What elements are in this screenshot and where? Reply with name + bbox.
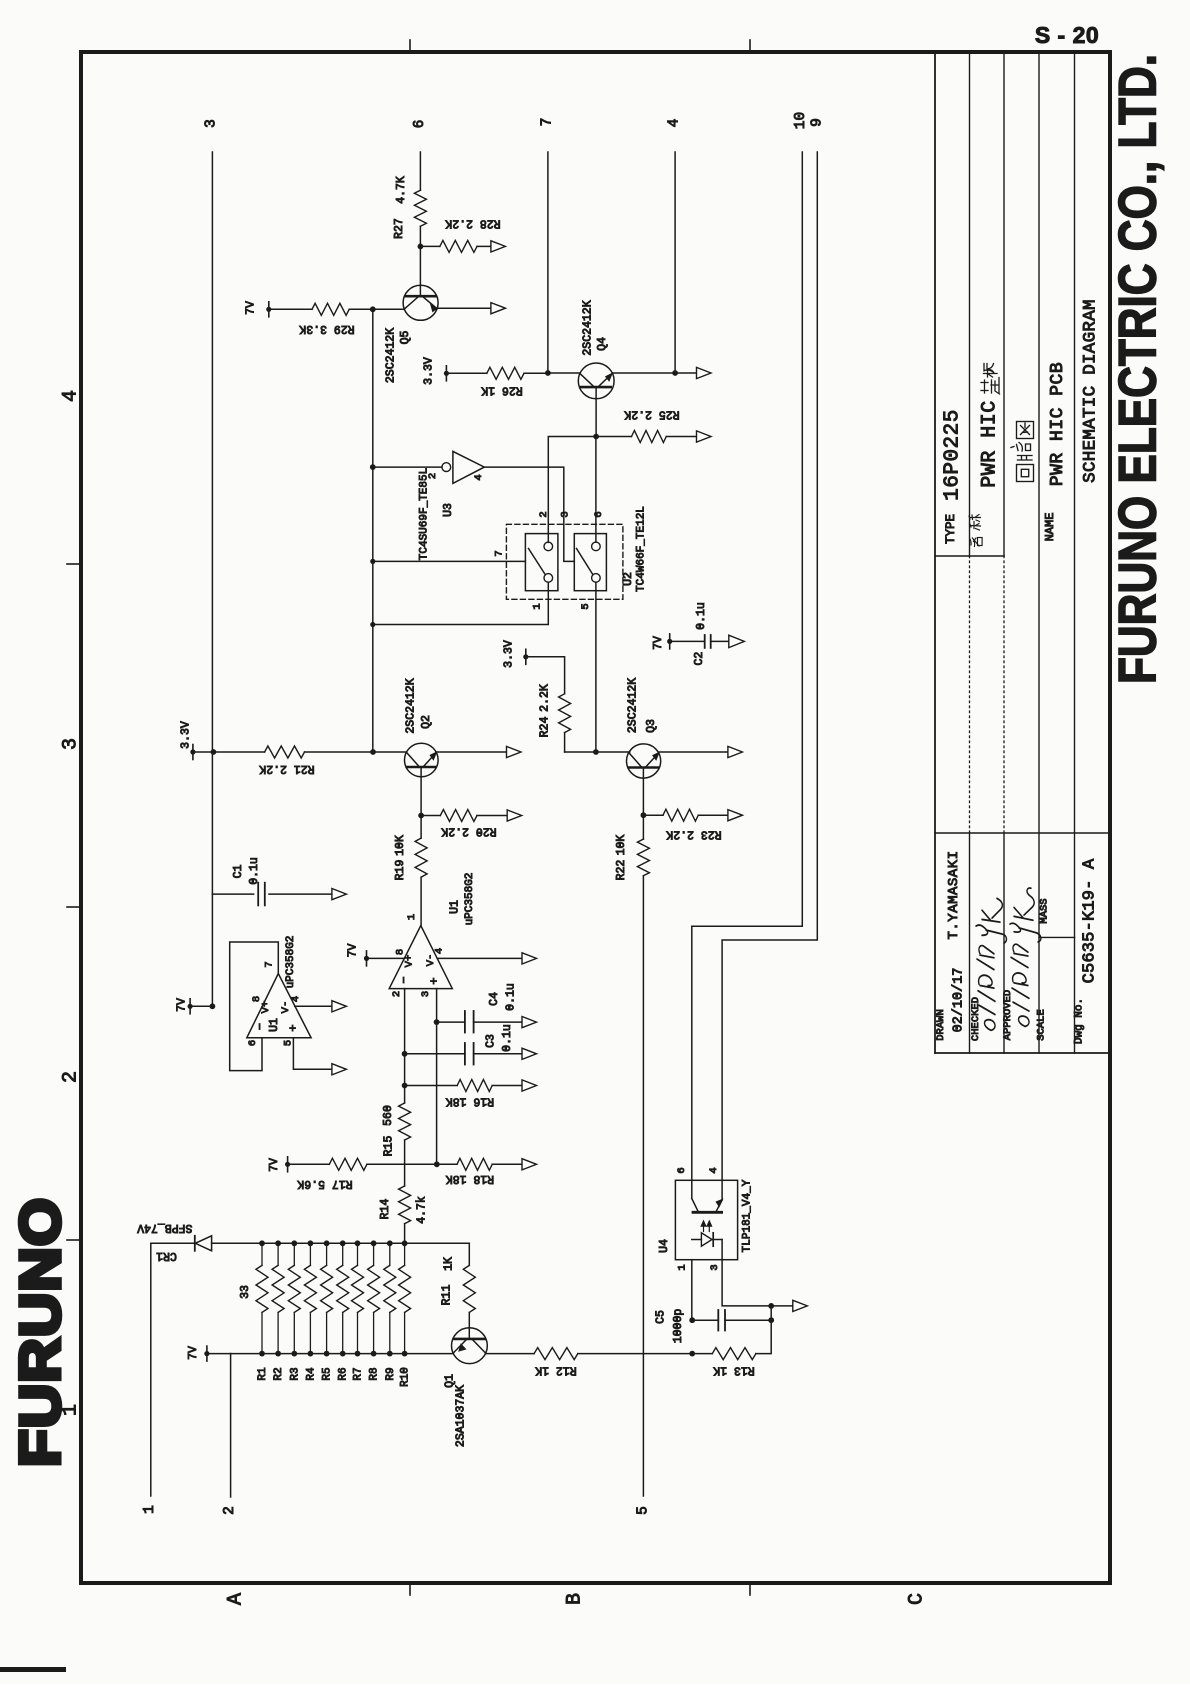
label R14 [379,1196,428,1224]
svg-text:Dwg No.: Dwg No. [1074,998,1086,1044]
svg-text:S - 20: S - 20 [1035,22,1099,48]
svg-text:R13 1K: R13 1K [713,1364,755,1377]
svg-text:4: 4 [60,390,83,402]
svg-text:2SC2412K: 2SC2412K [405,678,418,733]
svg-text:5: 5 [636,1506,652,1515]
svg-text:5: 5 [282,1040,294,1046]
label U1b V+ [404,955,416,968]
svg-text:R11: R11 [441,1285,454,1306]
wire out arrow [771,1305,793,1307]
label U4 pin3 [709,1264,721,1270]
arrow C4 out [522,1017,537,1028]
svg-text:3: 3 [560,511,572,517]
7V tap (U1a V+) [188,999,213,1014]
node bottom bus / T2 [230,1353,232,1355]
title circuit-diagram kanji [1011,422,1034,482]
svg-text:2: 2 [538,511,550,517]
label Q4 [582,300,610,355]
svg-text:4.7K: 4.7K [395,176,408,204]
wire U1b pin2 drop [404,989,406,1103]
svg-text:02/10/17: 02/10/17 [952,968,967,1033]
label U1a plus [286,1024,300,1031]
label CR1 [156,1249,177,1262]
label Q1 [444,1374,468,1447]
label U3 part [418,468,430,560]
title Dwg No. label [1074,998,1086,1044]
transistor Q5 [373,246,491,320]
node pin2/C3 [402,1051,408,1057]
label U1b pin1 [406,914,418,920]
svg-text:1: 1 [406,914,418,920]
frame tick bottom B/C [749,1583,751,1595]
label U2 pin2 [538,511,550,517]
title NAME-JP label (kanji) [969,515,982,547]
svg-text:C4: C4 [488,992,501,1006]
svg-text:1000p: 1000p [672,1309,685,1344]
arrow R28 out [491,241,506,252]
node Q2 base / R20 / R19 [418,813,424,819]
svg-text:R24: R24 [539,717,552,738]
label U1a pin5 [282,1040,294,1046]
label R22 [615,835,628,881]
svg-text:SFPB_74V: SFPB_74V [137,1221,192,1234]
wire terminal 4 riser [674,152,676,373]
frame tick left 3/2 [67,906,81,908]
scan mark bottom-left [0,1667,66,1672]
svg-text:7V: 7V [268,1158,281,1172]
svg-text:2.2K: 2.2K [539,684,552,712]
resistor bank R1-R10 [256,1240,411,1356]
svg-text:APPROVED: APPROVED [1002,990,1014,1040]
terminal 1 label [142,1505,158,1514]
label U3 pin4 [473,474,485,480]
7V tap (bottom bus) [204,1346,230,1361]
svg-text:3: 3 [60,738,83,750]
inverter U3 [373,451,575,561]
svg-text:R19: R19 [394,860,407,881]
arrow C1 out [332,889,347,900]
grid label A [225,1593,248,1605]
svg-text:2: 2 [391,991,403,997]
node Q2 collector [370,749,376,755]
analog switch U2 [506,524,623,599]
wire U2 pin1 drop [373,582,549,624]
svg-text:V+: V+ [404,955,416,968]
svg-text:DRAWN: DRAWN [935,1009,947,1041]
arrow Q5 emitter out [491,303,506,314]
label U4 [658,1239,671,1253]
label U1a pin4 [290,996,302,1002]
svg-text:Q3: Q3 [645,719,658,733]
svg-text:U1: U1 [268,1018,281,1032]
svg-text:R4: R4 [305,1367,317,1381]
wire R26-node to Q4 [548,372,580,374]
svg-text:4: 4 [473,474,485,480]
svg-text:5: 5 [580,603,592,609]
grid label 2 [60,1071,83,1083]
frame tick left 2/1 [67,1239,81,1241]
wire U4 pin1 drop [691,1260,693,1321]
label U2 part [636,506,648,592]
label U1b [448,900,461,914]
label R11 [441,1257,456,1305]
node pin3/C4 [434,1019,440,1025]
resistor R20 [421,810,507,822]
svg-text:B: B [564,1593,587,1605]
svg-text:3.3V: 3.3V [423,357,436,385]
svg-text:TYPE: TYPE [944,514,958,544]
label R18 [446,1172,494,1185]
node U2 pin5 / Q3 [593,749,599,755]
wire U2 pin7 [373,560,526,562]
svg-text:R15: R15 [383,1136,396,1157]
svg-text:R3: R3 [289,1367,301,1380]
svg-text:TC4W66F_TE12L: TC4W66F_TE12L [636,506,648,592]
label C4 [488,983,517,1011]
label Q2 [405,678,434,733]
terminal 10 label [793,112,809,129]
svg-text:TC4SU69F_TE85L: TC4SU69F_TE85L [418,468,430,560]
label U1b V- [425,954,437,967]
7V tap (U1b V+) [364,951,404,966]
resistor R22 [637,815,649,876]
label U2 pin3 [560,511,572,517]
title NAME value PWR HIC PCB [1048,362,1068,486]
svg-text:4.7k: 4.7k [416,1196,429,1224]
svg-text:C2: C2 [693,652,706,666]
svg-text:R10: R10 [400,1367,412,1387]
svg-text:1: 1 [532,603,544,609]
svg-text:3: 3 [420,991,432,997]
svg-text:R28 2.2K: R28 2.2K [445,217,500,230]
label R21 [259,762,314,775]
svg-text:6: 6 [676,1167,688,1173]
svg-text:U2: U2 [622,572,635,586]
title NAME-JP value (PWR HIC kanji) [979,364,1002,488]
grid label 4 [60,390,83,402]
svg-text:0.1u: 0.1u [695,602,708,630]
arrow U1a pin5 out [332,1064,347,1075]
terminal 9 label [809,118,825,127]
svg-text:V+: V+ [260,1001,272,1014]
label Q5 [385,328,413,383]
svg-text:Q2: Q2 [420,715,433,729]
arrow R25 out [697,431,712,442]
wire R24 to Q3 [565,751,630,753]
label U1a pin6 [247,1040,259,1046]
label U2 pin7 [494,550,506,556]
label R13 [713,1364,755,1377]
node C5 right [768,1317,774,1323]
svg-text:4: 4 [667,119,683,128]
svg-text:6: 6 [412,120,428,129]
arrow R23 out [728,810,743,821]
label R16 [446,1094,494,1107]
wire U2 pin2 riser [548,437,596,543]
resistor R13 [692,1320,771,1359]
node T3/R21 [211,749,217,755]
node Q4 emitter / terminal 4 [672,370,678,376]
svg-text:uPC358G2: uPC358G2 [285,936,297,989]
label C5 [655,1309,686,1344]
svg-text:3: 3 [709,1264,721,1270]
3.3V tap (R26) [444,366,487,381]
transistor Q2 [405,743,507,815]
arrow C3 out [522,1048,537,1059]
arrow Q3 out [728,746,743,757]
svg-text:7: 7 [540,118,556,127]
arrow U1b V- out [522,953,537,964]
svg-text:+: + [286,1024,300,1031]
svg-text:R18 18K: R18 18K [446,1172,494,1185]
label R25 [624,408,679,421]
svg-text:3.3V: 3.3V [503,640,516,668]
svg-text:SCHEMATIC DIAGRAM: SCHEMATIC DIAGRAM [1081,299,1101,483]
svg-text:R8: R8 [369,1367,381,1380]
svg-text:4: 4 [290,996,302,1002]
node R12/R13/C5 [689,1351,695,1357]
sheet number S-20 [1035,22,1099,48]
wire Q4 emitter to arrow [675,372,696,374]
3.3V tap (R21) [190,745,213,760]
title TYPE label [944,514,958,544]
svg-text:7V: 7V [245,301,258,315]
label U2 pin5 [580,603,592,609]
node C5 left [689,1317,695,1323]
resistor R27 [414,190,426,246]
wire U2 pin6 riser [595,437,597,543]
wire R14 bus corner [468,1243,470,1265]
svg-text:0.1u: 0.1u [501,1024,514,1052]
grid label B [564,1593,587,1605]
svg-text:Q5: Q5 [399,331,412,345]
resistor R17 [329,1158,437,1170]
svg-text:R23 2.2K: R23 2.2K [666,828,721,841]
svg-text:1: 1 [677,1264,689,1270]
svg-text:2: 2 [60,1071,83,1083]
7V tap (R29) [266,302,312,317]
svg-text:2SC2412K: 2SC2412K [582,300,595,355]
svg-text:CHECKED: CHECKED [970,997,982,1041]
FURUNO ELECTRIC CO., LTD. text [1109,54,1168,684]
svg-text:U3: U3 [442,503,455,517]
svg-text:C5: C5 [655,1310,668,1324]
wire terminal 3 riser [211,152,213,1006]
arrow opto out [793,1300,808,1311]
svg-text:C: C [906,1593,929,1605]
svg-text:9: 9 [809,118,825,127]
wire U4 pin3 drop [722,1260,771,1306]
svg-text:CR1: CR1 [156,1249,177,1262]
capacitor C1 [254,883,265,906]
label U1a V- [280,1001,292,1014]
capacitor C4 [437,1011,522,1033]
svg-text:V-: V- [425,954,437,967]
label U3 pin2 [427,473,439,479]
svg-text:4: 4 [434,948,446,954]
svg-text:R14: R14 [379,1199,392,1220]
svg-text:R21 2.2K: R21 2.2K [259,762,314,775]
svg-text:PWR HIC PCB: PWR HIC PCB [1048,362,1068,486]
svg-text:2SA1037AK: 2SA1037AK [455,1385,468,1447]
wire C1 branch [212,893,330,895]
3.3V label (R24) [503,640,516,668]
3.3V label (R21) [180,721,193,749]
node U3-in dot2 [372,560,374,562]
7V tap (R17) [285,1157,329,1172]
transistor Q1 [452,1328,488,1364]
frame tick bottom A/B [409,1583,411,1595]
resistor R26 [487,367,548,379]
terminal 7 label [540,118,556,127]
label U1b pin4 [434,948,446,954]
label U1a part [285,936,297,989]
title SCALE label [1036,1009,1048,1041]
transistor Q3 [627,744,729,815]
label U4 pin1 [677,1264,689,1270]
svg-text:C1: C1 [232,865,245,879]
wire CR1 bus [262,1242,469,1244]
svg-text:R7: R7 [353,1367,365,1380]
svg-text:C3: C3 [485,1034,498,1048]
op-amp U1b [367,926,523,989]
svg-text:10K: 10K [394,835,407,856]
svg-text:R22: R22 [615,860,628,881]
optocoupler U4 [675,1180,737,1259]
label 33 [239,1285,252,1299]
svg-text:0.1u: 0.1u [248,857,261,885]
arrow Q2 out [507,746,522,757]
node Q4 base / R25 [593,434,599,440]
svg-text:R9: R9 [385,1367,397,1380]
title APPROVED signature [1010,888,1041,1026]
wire terminal 6 to R27 [419,152,421,190]
svg-text:U4: U4 [658,1239,671,1253]
svg-text:T.YAMASAKI: T.YAMASAKI [946,850,962,939]
resistor R14 [399,1186,411,1243]
node U2 pin7 tap [370,559,375,564]
title NAME label [1043,513,1057,542]
capacitor C2 [705,635,729,648]
label R17 [297,1177,352,1190]
transistor Q4 [578,363,675,437]
svg-text:SCALE: SCALE [1036,1009,1048,1041]
svg-text:16P0225: 16P0225 [942,409,965,501]
svg-text:PWR HIC: PWR HIC [979,400,1002,488]
resistor R24 [559,694,571,752]
7V label (bus) [187,1346,200,1360]
capacitor C5 [692,1310,771,1331]
wire terminal 1 riser [150,1243,152,1496]
node pin2/R16 [402,1083,408,1089]
node U2 pin1 tap [370,622,375,627]
node U4 pin3 / out [768,1303,774,1309]
terminal 5 label [636,1506,652,1515]
resistor R29 [312,303,373,315]
label U1a V+ [260,1001,272,1014]
label U1a pin7 [264,961,276,967]
label C3 [485,1024,515,1052]
resistor R25 [596,431,696,443]
svg-text:−: − [254,1023,268,1030]
frame tick left 4/3 [67,563,81,565]
title MASS label [1039,898,1051,923]
title block grid [935,54,1110,1053]
svg-text:560: 560 [382,1105,395,1126]
svg-text:R25 2.2K: R25 2.2K [624,408,679,421]
title CHECKED label [970,997,982,1041]
title APPROVED label [1002,990,1014,1040]
arrow R20 out [507,810,522,821]
label Q3 [626,678,658,733]
arrow Q4 out [697,367,712,378]
wire long vertical (Q5-Q2) [372,309,374,752]
border frame [81,52,1110,1583]
title TYPE value 16P0225 [942,409,965,501]
grid label 1 [60,1404,83,1416]
svg-text:FURUNO: FURUNO [9,1197,73,1467]
node T3 / U1a V+ [210,1003,216,1009]
svg-text:3.3V: 3.3V [180,721,193,749]
resistor R11 [463,1265,475,1328]
label U1b pin8 [395,949,407,955]
svg-text:7V: 7V [176,998,189,1012]
svg-text:R16 18K: R16 18K [446,1094,494,1107]
label R26 [481,384,523,397]
7V tap (C2) [667,634,705,649]
resistor R28 [420,240,490,252]
svg-text:2SC2412K: 2SC2412K [385,328,398,383]
wire C5 to pin3 node [770,1306,772,1320]
title Dwg No. value [1081,858,1100,983]
svg-text:7V: 7V [187,1346,200,1360]
wire bottom bus [231,1353,454,1355]
svg-text:R27: R27 [393,218,406,239]
capacitor C3 [405,1043,522,1065]
label C2 [693,602,708,665]
arrow R16 out [522,1080,537,1091]
label U1b pin2 [391,991,403,997]
grid label 3 [60,738,83,750]
resistor R15 [399,1103,411,1186]
label U1b part [464,873,476,926]
label U1a [268,1018,281,1032]
svg-text:10: 10 [793,112,809,129]
svg-text:uPC358G2: uPC358G2 [464,873,476,926]
svg-text:R5: R5 [322,1367,334,1380]
resistor R21 [213,746,373,758]
terminal 4 label [667,119,683,128]
svg-text:0.1u: 0.1u [504,983,517,1011]
resistor R18 [437,1158,522,1170]
svg-text:R26 1K: R26 1K [481,384,523,397]
node pin3/R17/R18 [434,1161,440,1167]
7V label (U1a) [176,998,189,1012]
7V label (C2) [652,636,665,650]
node term7/R26/Q4 [545,370,551,376]
svg-text:R29 3.3K: R29 3.3K [299,322,354,335]
label R29 [299,322,354,335]
terminal 2 label [222,1506,238,1515]
resistor R23 [643,809,728,821]
wire terminal 10 to U4 pin6 [692,152,803,1180]
arrow U1a V- out [332,1001,347,1012]
wire U1b pin3 drop [436,989,438,1165]
frame tick top A/B [409,40,411,52]
label U4 pin4 [708,1167,720,1173]
svg-text:R2: R2 [273,1367,285,1380]
label R15 [382,1105,396,1156]
